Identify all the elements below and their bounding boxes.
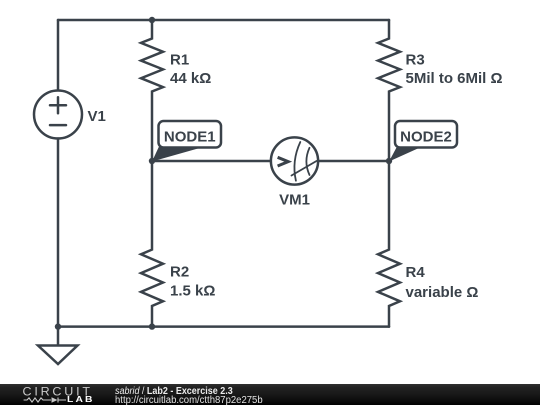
svg-text:V1: V1	[88, 108, 106, 125]
svg-text:R3: R3	[406, 51, 425, 68]
svg-text:R2: R2	[170, 263, 189, 280]
svg-text:variable Ω: variable Ω	[406, 284, 479, 301]
svg-text:R4: R4	[406, 264, 426, 281]
svg-text:NODE1: NODE1	[164, 128, 216, 145]
svg-text:44 kΩ: 44 kΩ	[170, 70, 211, 87]
svg-text:NODE2: NODE2	[400, 128, 452, 145]
svg-text:R1: R1	[170, 51, 189, 68]
svg-text:VM1: VM1	[279, 191, 310, 208]
svg-text:5Mil to 6Mil Ω: 5Mil to 6Mil Ω	[406, 70, 503, 87]
svg-text:1.5 kΩ: 1.5 kΩ	[170, 283, 215, 300]
